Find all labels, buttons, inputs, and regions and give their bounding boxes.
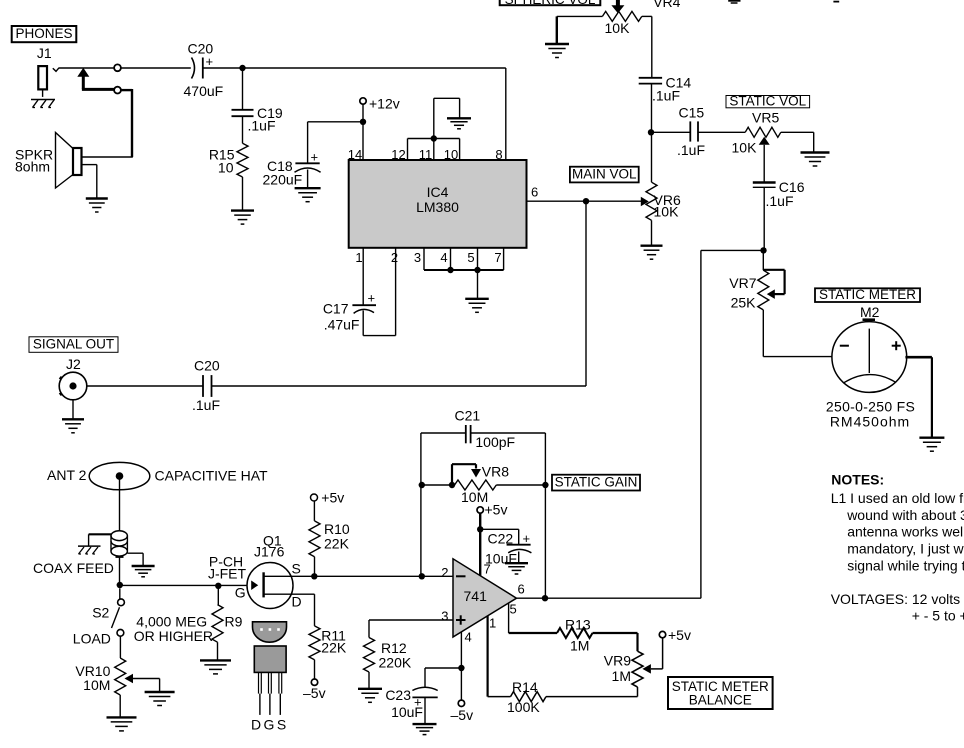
terminal -5v op-amp	[451, 700, 474, 723]
label M2	[860, 304, 880, 320]
svg-text:VR5: VR5	[752, 110, 779, 126]
potentiometer VR6 10K	[641, 182, 681, 220]
svg-text:D: D	[292, 594, 302, 610]
pin label 1	[489, 616, 496, 631]
capacitor C14 .1uF	[639, 75, 692, 104]
notes line 1	[831, 490, 964, 506]
svg-text:VOLTAGES: 12 volts re: VOLTAGES: 12 volts re	[831, 591, 964, 607]
label SPKR 8ohm	[15, 147, 53, 175]
node junction antenna	[117, 582, 123, 588]
capacitor C15 .1uF	[677, 105, 705, 159]
svg-text:1: 1	[355, 250, 362, 265]
wire R9 to ground	[217, 642, 219, 660]
capacitor C18 220uF	[263, 150, 321, 189]
notes line 4	[847, 541, 964, 557]
wire antenna to gate	[120, 584, 252, 586]
wire pin 4 to -5v	[460, 632, 462, 700]
svg-text:VR7: VR7	[729, 275, 756, 291]
terminal +5v op-amp	[477, 502, 507, 518]
svg-text:STATIC GAIN: STATIC GAIN	[555, 474, 638, 489]
svg-text:+5v: +5v	[668, 627, 691, 643]
svg-text:8ohm: 8ohm	[15, 159, 50, 175]
svg-text:11: 11	[419, 147, 433, 162]
label box STATIC METER	[815, 287, 920, 302]
wire junction to C18	[308, 122, 363, 163]
wire VR5 wiper to C16	[763, 145, 765, 182]
notes line 3	[847, 524, 964, 540]
label box SIGNAL OUT	[29, 336, 118, 352]
label CAPACITIVE HAT	[155, 468, 269, 484]
svg-text:VR8: VR8	[482, 464, 509, 480]
svg-text:NOTES:: NOTES:	[831, 472, 884, 488]
label box PHONES	[12, 26, 77, 42]
svg-text:12: 12	[391, 147, 405, 162]
wire C16 to VR7 junction	[763, 187, 765, 250]
svg-text:+: +	[368, 291, 376, 306]
wire VR8 right	[496, 484, 545, 486]
wire hat to coax	[119, 479, 121, 531]
package side view Q1	[254, 646, 286, 715]
svg-text:5: 5	[510, 602, 517, 617]
resistor R10 22K	[309, 501, 350, 557]
notes voltages	[831, 591, 964, 607]
wire R10 to source line	[314, 557, 316, 577]
node junction C21 left	[419, 573, 425, 579]
pin label 4	[465, 630, 472, 645]
svg-text:10: 10	[444, 147, 458, 162]
potentiometer VR4 10K	[602, 0, 680, 36]
svg-text:G: G	[264, 717, 275, 733]
resistor R13 1M	[557, 617, 593, 654]
svg-text:7: 7	[494, 250, 501, 265]
wire VR8 line left	[422, 484, 455, 486]
resistor R9	[212, 586, 243, 642]
node junction source R10	[311, 573, 317, 579]
svg-text:VR9: VR9	[604, 653, 631, 669]
svg-text:–5v: –5v	[451, 707, 474, 723]
svg-text:6: 6	[518, 582, 525, 597]
chassis ground coax	[78, 546, 101, 554]
wire VR7 to meter	[763, 310, 833, 357]
node junction C22 tap	[477, 526, 483, 532]
svg-text:VR4: VR4	[653, 0, 680, 10]
node junction VR8 right	[542, 482, 548, 488]
label Q1 J176	[254, 533, 285, 560]
label 4000 MEG OR HIGHER	[134, 614, 213, 645]
capacitor C16 .1uF	[753, 179, 805, 209]
coax feed cylinder	[111, 531, 127, 557]
svg-text:.47uF: .47uF	[324, 317, 360, 333]
notes heading	[831, 472, 884, 488]
svg-text:M2: M2	[860, 304, 880, 320]
label box STATIC GAIN	[552, 474, 640, 490]
svg-text:2: 2	[391, 250, 398, 265]
wire pins 3 4 5 7 bracket	[424, 248, 504, 270]
wire C23 branch	[425, 668, 461, 687]
wire VR4 right to C14	[642, 16, 652, 77]
pin label 6	[518, 582, 525, 597]
svg-text:J2: J2	[66, 356, 81, 372]
potentiometer VR9 1M	[604, 638, 663, 687]
svg-text:14: 14	[348, 147, 362, 162]
wire bracket to ground	[477, 270, 479, 299]
svg-text:C23: C23	[385, 687, 411, 703]
contact circle upper J1	[114, 64, 121, 71]
svg-text:SIGNAL OUT: SIGNAL OUT	[33, 336, 114, 351]
svg-text:PHONES: PHONES	[15, 26, 72, 41]
pin label 5	[467, 250, 474, 265]
wire loop from junction to op-amp output	[701, 250, 764, 598]
svg-text:6: 6	[531, 185, 538, 200]
label box SPHERIC VOL	[500, 0, 601, 7]
ground under C23	[413, 724, 437, 735]
svg-text:.1uF: .1uF	[248, 118, 276, 134]
svg-text:+5v: +5v	[321, 489, 344, 505]
svg-text:CAPACITIVE HAT: CAPACITIVE HAT	[155, 468, 269, 484]
label box STATIC VOL	[726, 94, 810, 109]
label D	[292, 594, 302, 610]
wire C17 to pin 2	[363, 248, 395, 336]
svg-text:3: 3	[441, 609, 448, 624]
svg-text:4: 4	[440, 250, 447, 265]
ground under VR4	[545, 44, 569, 58]
op-amp U2 741	[453, 559, 517, 637]
node junction C16 VR7	[760, 247, 766, 253]
svg-text:25K: 25K	[731, 295, 757, 311]
antenna capacitive hat	[89, 462, 150, 489]
svg-text:+5v: +5v	[485, 502, 508, 518]
wire pin 5 to R13	[509, 603, 557, 633]
label G	[235, 585, 246, 601]
wire R13 to VR9	[593, 633, 638, 651]
wire pin 1 to C17	[362, 248, 364, 305]
svg-text:2: 2	[441, 565, 448, 580]
svg-text:250-0-250 FS: 250-0-250 FS	[826, 399, 915, 415]
cut ground mark top	[728, 1, 740, 3]
node junction output feedback	[542, 595, 548, 601]
wire speaker to ground	[82, 165, 97, 199]
potentiometer VR8 10M	[452, 464, 509, 506]
label S2	[92, 605, 109, 621]
svg-text:1M: 1M	[612, 668, 631, 684]
svg-text:J-FET: J-FET	[208, 566, 247, 582]
wire lower contact to speaker	[82, 89, 133, 157]
ground under R15	[231, 211, 254, 225]
wire J2 to ground	[72, 400, 74, 420]
svg-text:MAIN VOL: MAIN VOL	[572, 166, 637, 181]
potentiometer VR5 10K	[732, 127, 781, 155]
wire R14 to pin 1	[488, 616, 511, 697]
svg-text:BALANCE: BALANCE	[689, 693, 752, 708]
svg-text:–5v: –5v	[303, 685, 326, 701]
label J2	[66, 356, 81, 372]
wire +5v to pin 7	[479, 513, 481, 575]
wire coax to gate line	[119, 556, 121, 585]
svg-text:+: +	[311, 150, 319, 165]
pin label 12	[391, 147, 405, 162]
node junction C15 tap	[648, 129, 654, 135]
ground under VR10 wiper	[145, 692, 175, 706]
capacitor C20 470uF	[184, 41, 224, 100]
capacitor C20 .1uF signal	[192, 358, 220, 414]
ground under VR5	[801, 153, 830, 167]
svg-text:+: +	[523, 531, 531, 546]
svg-text:470uF: 470uF	[184, 83, 224, 99]
wire coax shield left	[89, 534, 111, 546]
ground right of coax	[132, 566, 155, 577]
terminal -5v R11	[303, 679, 326, 701]
svg-text:220K: 220K	[379, 655, 412, 671]
wire C15 to VR5	[698, 131, 745, 133]
switch arrow J1 contact	[77, 68, 114, 90]
svg-text:LM380: LM380	[416, 199, 459, 215]
node junction C19 tap	[239, 65, 245, 71]
wire VR6 to ground	[651, 220, 653, 245]
svg-text:J1: J1	[37, 45, 52, 61]
capacitor C17 .47uF	[323, 291, 376, 333]
wire junction down to signal out	[585, 201, 587, 386]
node junction R9 tap	[215, 583, 221, 589]
svg-text:STATIC VOL: STATIC VOL	[729, 94, 806, 109]
svg-text:10M: 10M	[83, 677, 110, 693]
wire junction to C19	[242, 68, 244, 109]
svg-text:signal while trying t: signal while trying t	[847, 558, 964, 574]
op-amp IC4 LM380 body	[349, 160, 527, 248]
wire J1 tip to C20	[59, 67, 191, 69]
node junction pin 4	[447, 267, 453, 273]
ground under R12	[358, 689, 382, 703]
label D G S package	[251, 717, 286, 733]
svg-text:RM450ohm: RM450ohm	[830, 414, 910, 430]
svg-text:.1uF: .1uF	[652, 88, 680, 104]
wire meter to ground	[905, 357, 932, 438]
ground under VR6	[641, 246, 663, 260]
terminal +5v VR9	[659, 627, 691, 643]
ground under C22	[505, 563, 528, 574]
svg-text:100pF: 100pF	[475, 434, 515, 450]
switch S2	[112, 588, 125, 636]
wire J1 tick to ground	[42, 89, 44, 97]
resistor R11 22K	[309, 626, 347, 660]
svg-text:L1 I used an old low fre: L1 I used an old low fre	[831, 490, 964, 506]
cut mark top right	[833, 1, 839, 3]
wire source to op-amp pin 2	[292, 575, 453, 577]
svg-text:100K: 100K	[507, 699, 540, 715]
svg-text:.1uF: .1uF	[766, 193, 794, 209]
label S	[292, 561, 301, 577]
svg-text:22K: 22K	[324, 536, 350, 552]
ground under meter	[919, 438, 944, 452]
svg-text:741: 741	[464, 588, 488, 604]
wire pins 12 11 10 bracket	[408, 139, 460, 161]
svg-text:R13: R13	[565, 617, 591, 633]
connector J2 BNC	[59, 372, 87, 400]
svg-text:IC4: IC4	[427, 184, 449, 200]
chassis ground under J1	[31, 100, 55, 108]
notes voltages 2	[912, 608, 964, 624]
label meter scale	[826, 399, 915, 430]
ground under C18	[295, 188, 321, 202]
svg-text:D: D	[251, 717, 261, 733]
svg-text:S: S	[292, 561, 301, 577]
capacitor C23 10uF	[385, 687, 437, 724]
pin label 4	[440, 250, 447, 265]
connector J1 phone jack	[38, 66, 59, 89]
wire C20 to pin8 corner	[203, 68, 506, 160]
svg-text:3: 3	[414, 250, 421, 265]
svg-text:1M: 1M	[570, 638, 589, 654]
pin label 7	[484, 562, 491, 577]
terminal +12v	[360, 95, 400, 111]
wire pin 3 to R12	[369, 620, 453, 638]
package top view Q1	[253, 622, 287, 642]
wire pin 6 output	[527, 185, 642, 202]
wire C21 right branch	[471, 433, 545, 598]
svg-text:STATIC METER: STATIC METER	[819, 287, 916, 302]
ground under speaker	[86, 199, 108, 213]
node junction C23 tap	[458, 665, 464, 671]
ground under VR10	[107, 717, 137, 731]
notes line 5	[847, 558, 964, 574]
svg-text:+12v: +12v	[369, 95, 400, 111]
svg-text:ANT 2: ANT 2	[47, 467, 87, 483]
svg-text:C22: C22	[488, 531, 514, 547]
pin label 2	[391, 250, 398, 265]
svg-text:LOAD: LOAD	[73, 631, 111, 647]
contact circle lower J1	[114, 87, 121, 94]
pin label 1	[355, 250, 362, 265]
svg-text:SPHERIC VOL: SPHERIC VOL	[505, 0, 596, 7]
ground under R9	[200, 660, 231, 674]
svg-text:.1uF: .1uF	[677, 142, 705, 158]
wire C14 to VR6 top	[651, 84, 653, 183]
resistor R14 100K	[507, 679, 546, 715]
svg-text:C15: C15	[679, 105, 705, 121]
label COAX FEED	[33, 560, 114, 576]
svg-text:5: 5	[467, 250, 474, 265]
svg-text:wound with about 30: wound with about 30	[846, 507, 964, 523]
svg-text:mandatory, I just wa: mandatory, I just wa	[847, 541, 964, 557]
svg-text:OR HIGHER: OR HIGHER	[134, 628, 213, 644]
svg-text:G: G	[235, 585, 246, 601]
resistor R12 220K	[364, 638, 412, 673]
pin label 7	[494, 250, 501, 265]
pin label 5	[510, 602, 517, 617]
wire junction to C15	[651, 131, 690, 133]
wire R12 to ground	[368, 672, 370, 689]
svg-text:10uF: 10uF	[391, 704, 423, 720]
node junction VR8 wiper	[449, 482, 455, 488]
wire J2 to C20	[87, 385, 203, 387]
meter M2	[832, 320, 907, 393]
pin label 14	[348, 147, 362, 162]
node junction pin11 bracket	[431, 135, 437, 141]
potentiometer VR10 10M	[75, 658, 159, 695]
label box MAIN VOL	[570, 166, 639, 182]
svg-text:S: S	[277, 717, 286, 733]
node junction +12v	[360, 119, 366, 125]
wire C19 to R15	[242, 116, 244, 143]
wire VR10 to ground	[119, 695, 121, 717]
svg-text:R14: R14	[512, 679, 538, 695]
capacitor C22 10uF	[480, 529, 531, 566]
svg-text:8: 8	[495, 147, 502, 162]
resistor R15	[209, 143, 248, 177]
pin label 10	[444, 147, 458, 162]
wire R15 to ground	[242, 177, 244, 211]
svg-text:22K: 22K	[321, 640, 347, 656]
ground under pins 4 5	[465, 299, 489, 313]
potentiometer VR7 25K	[729, 250, 784, 310]
wire drain to R11	[292, 594, 315, 626]
label LOAD	[73, 631, 111, 647]
node junction main vol tap	[583, 198, 589, 204]
svg-text:.1uF: .1uF	[192, 397, 220, 413]
svg-text:C20: C20	[194, 358, 220, 374]
wire coax to ground right	[127, 553, 143, 566]
svg-text:R9: R9	[225, 614, 243, 630]
terminal +5v R10	[311, 489, 345, 505]
pin label 3	[414, 250, 421, 265]
capacitor C21 100pF	[455, 408, 516, 451]
wire R11 to -5v	[314, 660, 316, 679]
svg-text:+ - 5 to +: + - 5 to +	[912, 608, 964, 624]
wire VR4 left to ground	[557, 16, 603, 44]
wire VR5 right to ground	[781, 132, 814, 152]
pin label 2	[441, 565, 448, 580]
svg-text:S2: S2	[92, 605, 109, 621]
svg-text:C21: C21	[455, 408, 481, 424]
pin label 11	[419, 147, 433, 162]
svg-text:10: 10	[218, 160, 234, 176]
svg-text:COAX FEED: COAX FEED	[33, 560, 114, 576]
wire S2 to VR10	[119, 636, 121, 658]
label ANT 2	[47, 467, 87, 483]
svg-text:1: 1	[489, 616, 496, 631]
svg-text:10K: 10K	[605, 20, 631, 36]
speaker SPKR	[56, 133, 82, 189]
label box STATIC METER BALANCE	[668, 677, 773, 709]
svg-text:10K: 10K	[654, 204, 680, 220]
node junction VR8 left	[419, 482, 425, 488]
svg-text:C17: C17	[323, 301, 349, 317]
ground above pin 10	[447, 118, 471, 129]
svg-text:220uF: 220uF	[263, 172, 303, 188]
wire VR9 to R14	[546, 687, 638, 697]
transistor Q1 J176	[247, 563, 293, 609]
wire +12v to pin 14	[362, 104, 364, 160]
label P-CH J-FET	[208, 554, 247, 582]
svg-text:J176: J176	[254, 544, 285, 560]
svg-text:antenna works well: antenna works well	[847, 524, 964, 540]
wire C20 to main vol junction	[212, 385, 587, 387]
capacitor C19 .1uF	[232, 105, 283, 133]
label J1	[37, 45, 52, 61]
wire op-amp output	[517, 597, 701, 599]
ground under J2	[62, 419, 84, 433]
pin label 3	[441, 609, 448, 624]
node junction pin 5	[474, 267, 480, 273]
svg-text:10K: 10K	[732, 140, 758, 156]
wire C21 left branch	[421, 433, 465, 576]
svg-text:4: 4	[465, 630, 472, 645]
label VR5	[752, 110, 779, 126]
wire bracket to ground stub	[434, 98, 460, 138]
svg-text:C20: C20	[188, 41, 214, 57]
notes line 2	[846, 507, 964, 523]
pin label 8	[495, 147, 502, 162]
